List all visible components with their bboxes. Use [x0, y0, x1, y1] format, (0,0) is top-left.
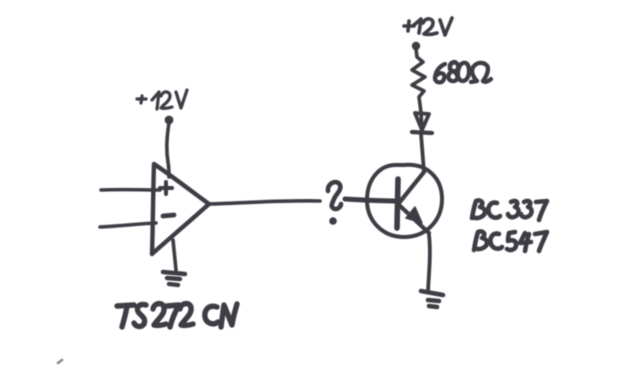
- diode D1 (pointing down): [415, 113, 429, 130]
- emitter arrowhead: [406, 207, 422, 223]
- resistor R1 680 ohm zigzag: [412, 49, 425, 131]
- ground (transistor emitter): [421, 291, 443, 307]
- op-amp + input marker: [160, 182, 172, 194]
- wire input bottom: [100, 223, 156, 227]
- wire op-amp V- to ground: [173, 240, 176, 270]
- wire base from ?: [345, 199, 397, 201]
- wire from +12V to op-amp V+: [165, 116, 174, 125]
- node ? (unknown connection): [328, 182, 341, 209]
- label 680 ohm: [435, 62, 491, 82]
- node +12V label (transistor supply): [404, 18, 452, 35]
- transistor base bar: [397, 179, 398, 228]
- wire diode to transistor collector: [421, 134, 424, 172]
- wire op-amp output: [209, 201, 320, 204]
- transistor collector diagonal: [399, 172, 424, 203]
- transistor Q1 circle: [367, 165, 442, 237]
- label BC 337: [472, 200, 547, 220]
- label TS 272 CN: [117, 304, 237, 327]
- wire emitter to ground: [428, 235, 430, 291]
- node +12V label (op-amp supply): [137, 90, 187, 109]
- label BC 547: [474, 231, 547, 251]
- transistor emitter diagonal: [399, 205, 429, 233]
- wire inverting/non-inverting input top: [101, 188, 160, 192]
- wire +12V to resistor: [412, 42, 420, 50]
- stray pen mark: [58, 360, 62, 363]
- ground (op-amp): [163, 272, 185, 285]
- op-amp U1 triangle: [152, 164, 209, 254]
- op-amp - input marker: [163, 215, 174, 216]
